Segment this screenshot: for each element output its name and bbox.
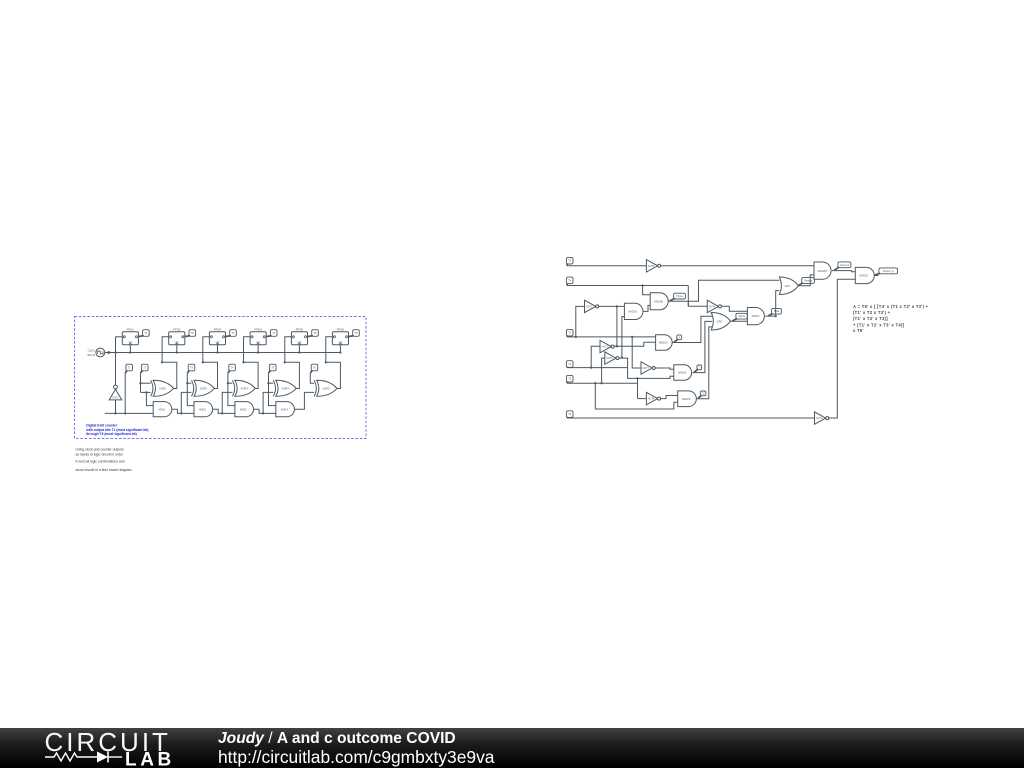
node flag T1 (input) (566, 329, 573, 336)
wire T6 tap to XOR5 input A (310, 373, 314, 383)
node flag T5 output of FFD5 (312, 330, 319, 337)
NOT1 vertical wire from FFD1 D input down (115, 337, 117, 385)
svg-text:CLK1: CLK1 (88, 348, 96, 352)
svg-text:through T6 (most significant b: through T6 (most significant bit) (86, 432, 137, 436)
wire NOT3b output down to AND2K input B run (619, 358, 674, 378)
svg-text:NOT9: NOT9 (816, 418, 823, 420)
and gate AND2M (814, 262, 831, 279)
node flag T2 output of FFD2 (189, 330, 196, 337)
wire NOT7 output to AND2K input A (655, 368, 674, 369)
junction T3 at NOT3b riser (600, 382, 602, 384)
junction FFD1 clk on clock line (129, 351, 131, 353)
junction NOT1 wire on clock line (114, 351, 116, 353)
junction rail on NOT3 output (621, 356, 623, 358)
inverter NOT2 (on T1) (585, 300, 596, 312)
junction T1 at NOT2 riser (575, 336, 577, 338)
svg-text:NOT6: NOT6 (606, 358, 613, 360)
wire NOT4 output to AND2I input A (722, 306, 748, 311)
and gate AND2H (656, 335, 673, 351)
svg-text:Alpha: Alpha (738, 314, 745, 318)
wire XOR2 output to FFD3 D input (203, 337, 218, 389)
junction FFD2 clk on clock line (176, 351, 178, 353)
junction FFD5 clk on clock line (298, 351, 300, 353)
svg-text:x T6': x T6' (853, 328, 864, 333)
wire OR7 output to AND2M input B (798, 275, 814, 286)
wire AND2F output to OR5 input C (696, 327, 713, 399)
and gate AND1 (153, 402, 172, 417)
node flag Beta (772, 308, 782, 314)
node flag T1 (counter tap) (126, 364, 133, 371)
node flag T6 (counter tap) (311, 364, 318, 371)
carry riser to XOR4 input B (263, 392, 273, 413)
svg-text:Output_A: Output_A (883, 269, 894, 273)
and gate AND2I (747, 308, 764, 325)
svg-text:(T1' x T2 x T3') +: (T1' x T2 x T3') + (853, 310, 891, 315)
wire OR5 output to AND2I input B (731, 320, 748, 322)
svg-text:Theta: Theta (676, 294, 683, 298)
wire T3 riser to NOT3b input (602, 358, 605, 383)
wire T4 tap down to AND3 input A (228, 373, 235, 405)
node flag T2 (input) (566, 361, 573, 368)
junction at FFD6 D feed corner (325, 361, 327, 363)
wire NOT8 output to AND2F input A (661, 396, 678, 399)
flip-flop FFD3 (209, 332, 225, 345)
wire XOR4 output to FFD5 D input (285, 337, 300, 389)
junction T1-bar rail lower (616, 345, 618, 347)
flip-flop FFD5 (291, 332, 307, 345)
wire AND2M output to AND2O input A (832, 271, 855, 272)
wire T3 tap down to AND2 input A (187, 373, 194, 405)
node flag term 12 (700, 391, 706, 396)
and gate AND2O (output) (855, 267, 874, 283)
svg-text:FFD5: FFD5 (296, 327, 304, 331)
svg-text:FFD1: FFD1 (127, 327, 135, 331)
wire NOT1 input to bottom rail (115, 400, 117, 414)
wire XOR2 input A (187, 382, 191, 384)
inverter NOT8 (646, 392, 657, 404)
svg-text:AND2G: AND2G (628, 310, 637, 314)
svg-text:AND2H: AND2H (659, 341, 668, 345)
wire T2 horizontal (567, 367, 628, 369)
xor gate XOR4 (276, 380, 296, 396)
svg-text:Omega: Omega (804, 279, 813, 283)
svg-text:AND3: AND3 (240, 407, 247, 411)
svg-text:Beta: Beta (774, 309, 780, 313)
junction at FFD5 D feed corner (284, 361, 286, 363)
wire NOT2 output to AND2G input A (599, 305, 625, 307)
wire AND2I output to OR7 input B (765, 291, 779, 317)
wire AND1 output to AND2 input B (172, 409, 194, 413)
junction carry riser col 3 (221, 412, 223, 414)
wire vertical rail to AND2G input B (622, 317, 625, 358)
wire XOR5 output to FFD6 D input (326, 337, 341, 389)
wire AND2G output to AND2B input B (643, 305, 650, 311)
svg-text:NOT8: NOT8 (648, 399, 655, 401)
node flag T3 (counter tap) (188, 364, 195, 371)
wire T4 branch to AND2B input A (643, 286, 651, 295)
node flag T5 (counter tap) (269, 364, 276, 371)
junction at FFD2 D feed corner (161, 361, 163, 363)
and gate AND3 (235, 402, 254, 417)
svg-text:Gamma: Gamma (840, 263, 850, 267)
wire FFD2 clock stub (176, 345, 178, 353)
svg-text:Digital 6-bit counter: Digital 6-bit counter (86, 423, 118, 427)
and gate AND2B (650, 293, 668, 310)
svg-text:AND2I: AND2I (752, 314, 760, 318)
flip-flop FFD6 (332, 332, 348, 345)
junction T2 tap at XOR1 input A (139, 382, 141, 384)
or gate OR7 (779, 277, 798, 295)
flip-flop FFD2 (169, 332, 185, 345)
svg-text:LAB: LAB (125, 750, 175, 768)
svg-text:XOR4: XOR4 (282, 386, 290, 390)
node flag Output_A (879, 268, 898, 274)
svg-text:+ (T1' x T2' x T3' x T4)]: + (T1' x T2' x T3' x T4)] (853, 322, 905, 327)
svg-text:AND2K: AND2K (678, 371, 687, 375)
junction at FFD3 D feed corner (202, 361, 204, 363)
svg-text:with output bits T1 (least sig: with output bits T1 (least significant b… (85, 428, 148, 432)
wire XOR4 input A (269, 382, 274, 384)
wire FFD3 clock stub (217, 345, 219, 353)
node flag T4 (input) (566, 277, 573, 284)
junction T2 riser (590, 366, 592, 368)
wire NOT8 input stub (638, 398, 647, 400)
xor gate XOR5 (317, 380, 337, 396)
junction FFD6 clk on clock line (339, 351, 341, 353)
junction on AND2K input B run (636, 377, 638, 379)
xor gate XOR3 (235, 380, 255, 396)
junction T4 branch (641, 284, 643, 286)
wire NOT5 output to AND2M input A (661, 265, 814, 267)
wire T1 branch down to NOT7 input (632, 337, 641, 368)
and gate AND2G (624, 303, 643, 319)
wire T3 horizontal (567, 382, 638, 384)
junction Beta wire (775, 315, 777, 317)
wire NOT9 output up to AND2O input B (829, 279, 856, 418)
wire FFD1 D input from NOT1 (116, 336, 123, 338)
node flag term 7 (697, 365, 702, 370)
node flag T1 output of FFD1 (143, 330, 150, 337)
wire FFD4 clock stub (257, 345, 259, 353)
junction carry riser col 4 (262, 412, 264, 414)
and gate AND4 (276, 402, 295, 417)
inverter NOT7 (on T1 lower) (641, 362, 652, 374)
junction T1 tap on bottom rail (124, 412, 126, 414)
wire T6 horizontal (567, 417, 815, 419)
clock source CLK1 99 Hz (96, 348, 105, 357)
svg-text:NOT1: NOT1 (112, 398, 119, 400)
wire FFD6 clock stub (339, 345, 341, 353)
wire branch down to AND1 input A (146, 392, 153, 405)
node flag Alpha (736, 313, 747, 319)
wire branch down to NOT4 (687, 301, 689, 306)
wire XOR1 output to FFD2 D input (162, 337, 177, 389)
junction T3 branch (594, 382, 596, 384)
carry riser to XOR2 input B (181, 392, 191, 413)
logo resistor zigzag (45, 753, 97, 761)
svg-text:AND2: AND2 (199, 407, 206, 411)
and gate AND2K (674, 365, 692, 381)
svg-text:NOT4: NOT4 (709, 306, 716, 308)
junction on NOT2 output rail (616, 305, 618, 307)
flip-flop FFD4 (250, 332, 266, 345)
node flag T2 (counter tap) (141, 364, 148, 371)
wire T1 tap down to bottom rail (124, 373, 126, 413)
inverter NOT1 (pointing up) (114, 385, 118, 389)
svg-text:to test all logic combinations: to test all logic combinations and (76, 460, 125, 464)
wire XOR3 output to FFD4 D input (244, 337, 259, 389)
inverter NOT4 (707, 300, 718, 312)
svg-text:XOR1: XOR1 (159, 386, 167, 390)
wire Theta run to OR7 input A (668, 280, 779, 301)
junction NOT1 on bottom rail (114, 412, 116, 414)
junction T4 tap at XOR3 input A (227, 382, 229, 384)
node flag Theta (674, 293, 686, 299)
wire XOR1 input B (141, 391, 151, 393)
wire T2 riser to NOT3a input (591, 346, 600, 367)
xor gate XOR2 (194, 380, 214, 396)
node flag Omega (802, 278, 815, 284)
wire T4 down to NOT4 input (688, 286, 707, 307)
junction at XOR1 input B branch (145, 391, 147, 393)
inverter NOT3b (on T3) (605, 352, 616, 364)
svg-text:FFD4: FFD4 (254, 327, 262, 331)
inverter NOT5 (646, 260, 657, 272)
and gate AND2 (194, 402, 213, 417)
junction at FFD4 D feed corner (242, 361, 244, 363)
wire vertical T1-bar rail (616, 306, 618, 346)
and gate AND2F (678, 391, 697, 407)
svg-text:A = T5' x [ [T4' x (T1 x T2' x: A = T5' x [ [T4' x (T1 x T2' x T3') + (853, 304, 929, 309)
wire FFD1 clock stub (129, 345, 131, 353)
inverter NOT9 (on T6) (815, 412, 826, 424)
wire T5 tap down to AND4 input A (269, 373, 276, 405)
node flag T3 output of FFD3 (230, 330, 237, 337)
inverter NOT3a (on T2) (600, 340, 611, 352)
junction carry riser col 2 (180, 412, 182, 414)
wire T2 tap down (140, 373, 142, 392)
wire NOT3a output to AND2H input B (614, 342, 655, 346)
svg-text:.: . (0, 0, 1, 1)
svg-text:NOT7: NOT7 (643, 368, 650, 370)
node flag T5 (input) (566, 257, 573, 264)
wire AND2O output stub (874, 275, 878, 277)
svg-text:FFD2: FFD2 (173, 327, 181, 331)
logo diode symbol (97, 752, 108, 763)
svg-text:AND2F: AND2F (682, 397, 691, 401)
wire AND2H output to OR5 input A (672, 316, 713, 342)
junction T3 tap at XOR2 input A (186, 382, 188, 384)
clock direction arrow (108, 351, 112, 354)
flip-flop FFD1 (122, 332, 138, 345)
wire riser from T3 crossing to NOT8 input (637, 378, 639, 398)
wire T1 into AND2H input A (654, 336, 656, 338)
junction FFD4 clk on clock line (257, 351, 259, 353)
svg-text:XOR5: XOR5 (322, 386, 330, 390)
wire FFD5 clock stub (298, 345, 300, 353)
svg-text:OR7: OR7 (785, 284, 791, 288)
node flag term 4 (677, 335, 682, 340)
svg-text:XOR3: XOR3 (241, 386, 249, 390)
node flag T4 (counter tap) (229, 364, 236, 371)
dashed selection box around counter (75, 317, 367, 439)
bottom rail wire into AND1 (105, 412, 153, 414)
wire AND4 output to XOR5 input B (294, 392, 314, 409)
xor gate XOR1 (153, 380, 173, 396)
svg-text:AND2M: AND2M (818, 269, 827, 273)
wire T1 horizontal (567, 336, 655, 338)
svg-text:FFD6: FFD6 (337, 327, 345, 331)
node flag Gamma (838, 262, 851, 268)
wire T4 horizontal (567, 285, 688, 287)
node flag T6 (input) (566, 411, 573, 418)
wire T3 branch down to bottom run (595, 383, 677, 409)
wire XOR3 input A (228, 382, 233, 384)
wire T1 riser to NOT2 input (576, 306, 585, 337)
node flag T4 output of FFD4 (270, 330, 277, 337)
junction T5 tap at XOR4 input A (267, 382, 269, 384)
svg-text:show results in a time based d: show results in a time based diagram. (76, 468, 133, 472)
wire T5 to NOT5 (567, 265, 647, 267)
svg-text:99 Hz: 99 Hz (87, 353, 95, 357)
svg-text:NOT3: NOT3 (602, 347, 609, 349)
svg-text:OR5: OR5 (717, 319, 723, 323)
svg-text:as inputs to logic circuit in: as inputs to logic circuit in order (76, 453, 124, 457)
svg-text:(T1' x T2' x T3)]: (T1' x T2' x T3)] (853, 316, 888, 321)
wire AND2 output to AND3 input B (213, 409, 235, 413)
svg-text:Using clock and counter output: Using clock and counter outputs (76, 447, 125, 451)
svg-text:NOT2: NOT2 (586, 306, 593, 308)
wire XOR1 input A (141, 382, 151, 384)
node flag T6 output of FFD6 (353, 330, 360, 337)
svg-text:XOR2: XOR2 (200, 386, 208, 390)
svg-text:AND1: AND1 (158, 407, 165, 411)
svg-text:NOT5: NOT5 (648, 266, 655, 268)
wire clock line (105, 352, 341, 354)
carry riser to XOR3 input B (222, 392, 232, 413)
or gate OR5 (711, 313, 730, 331)
node flag T3 (input) (566, 375, 573, 382)
svg-text:AND4: AND4 (281, 407, 288, 411)
wire AND3 output to AND4 input B (254, 409, 276, 413)
svg-text:FFD3: FFD3 (214, 327, 222, 331)
wire AND2K output to OR5 input B (692, 321, 712, 372)
junction T1 branch to NOT6b (631, 336, 633, 338)
svg-text:AND2B: AND2B (654, 299, 663, 303)
junction FFD3 clk on clock line (216, 351, 218, 353)
svg-text:AND2O: AND2O (859, 274, 868, 278)
